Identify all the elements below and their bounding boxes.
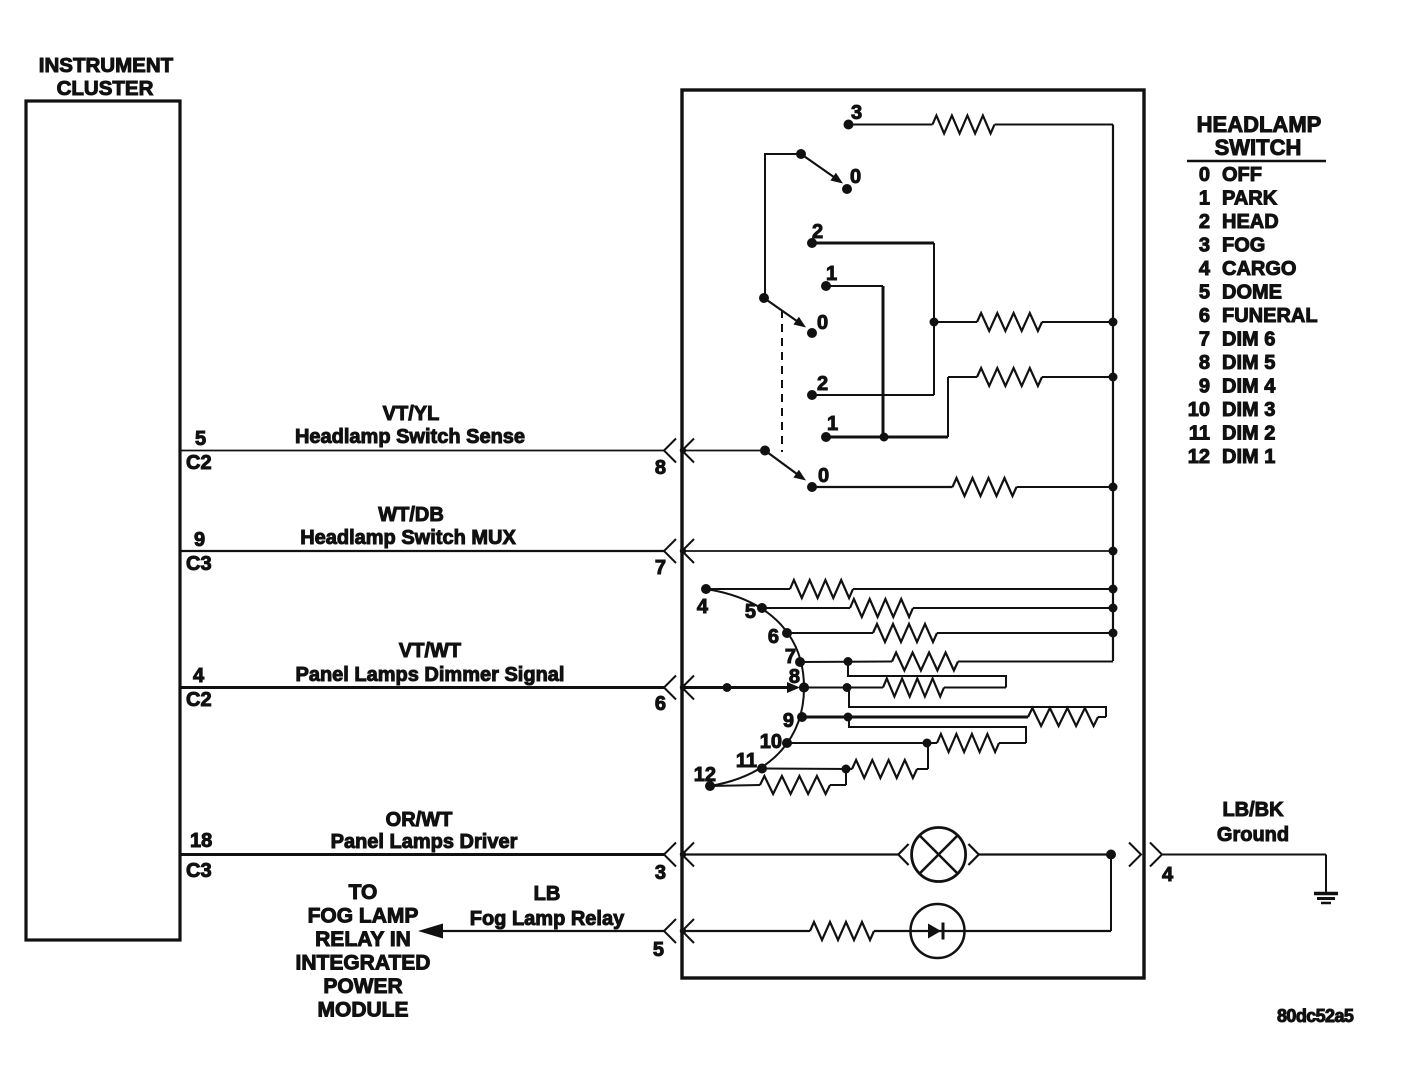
svg-text:HEADLAMP: HEADLAMP (1197, 112, 1322, 137)
svg-text:Panel Lamps Driver: Panel Lamps Driver (331, 831, 518, 853)
svg-text:7: 7 (655, 557, 666, 579)
svg-text:HEAD: HEAD (1222, 211, 1279, 233)
svg-text:SWITCH: SWITCH (1215, 135, 1302, 160)
svg-text:VT/WT: VT/WT (399, 640, 461, 662)
svg-text:0: 0 (1199, 164, 1210, 186)
svg-text:DOME: DOME (1222, 282, 1282, 304)
svg-text:Headlamp Switch Sense: Headlamp Switch Sense (295, 426, 525, 448)
svg-text:18: 18 (190, 830, 212, 852)
svg-text:12: 12 (1188, 446, 1210, 468)
svg-text:C2: C2 (186, 452, 212, 474)
svg-text:LB/BK: LB/BK (1222, 799, 1284, 821)
svg-text:6: 6 (1199, 305, 1210, 327)
svg-text:Headlamp Switch MUX: Headlamp Switch MUX (300, 527, 516, 549)
svg-text:INSTRUMENT: INSTRUMENT (39, 54, 174, 77)
svg-text:WT/DB: WT/DB (378, 504, 444, 526)
svg-text:2: 2 (817, 373, 828, 395)
svg-text:Ground: Ground (1217, 824, 1289, 846)
svg-text:FOG LAMP: FOG LAMP (308, 905, 419, 928)
svg-text:INTEGRATED: INTEGRATED (296, 952, 431, 975)
svg-text:Panel Lamps Dimmer Signal: Panel Lamps Dimmer Signal (296, 664, 565, 686)
svg-text:8: 8 (789, 666, 800, 688)
svg-text:9: 9 (783, 710, 794, 732)
svg-text:CLUSTER: CLUSTER (57, 77, 154, 100)
svg-text:5: 5 (1199, 282, 1210, 304)
svg-text:POWER: POWER (323, 975, 402, 998)
svg-text:2: 2 (1199, 211, 1210, 233)
svg-text:DIM 3: DIM 3 (1222, 399, 1275, 421)
svg-text:DIM 4: DIM 4 (1222, 376, 1276, 398)
svg-text:4: 4 (697, 596, 709, 618)
svg-text:5: 5 (195, 428, 206, 450)
svg-text:3: 3 (655, 862, 666, 884)
svg-text:8: 8 (1199, 352, 1210, 374)
svg-text:9: 9 (1199, 376, 1210, 398)
svg-text:9: 9 (194, 529, 205, 551)
svg-text:LB: LB (534, 883, 561, 905)
svg-text:4: 4 (1199, 258, 1211, 280)
svg-text:6: 6 (768, 626, 779, 648)
svg-text:7: 7 (1199, 329, 1210, 351)
svg-text:MODULE: MODULE (318, 999, 409, 1022)
svg-text:4: 4 (193, 665, 205, 687)
svg-text:FUNERAL: FUNERAL (1222, 305, 1318, 327)
svg-text:OFF: OFF (1222, 164, 1262, 186)
svg-text:DIM 5: DIM 5 (1222, 352, 1275, 374)
svg-text:1: 1 (827, 413, 838, 435)
svg-text:11: 11 (1189, 423, 1210, 445)
svg-text:PARK: PARK (1222, 188, 1278, 210)
svg-text:5: 5 (745, 601, 756, 623)
svg-text:DIM 2: DIM 2 (1222, 423, 1275, 445)
svg-text:3: 3 (1199, 235, 1210, 257)
svg-text:0: 0 (850, 166, 861, 188)
svg-text:12: 12 (694, 764, 716, 786)
svg-text:5: 5 (653, 939, 664, 961)
svg-text:8: 8 (655, 457, 666, 479)
svg-text:11: 11 (736, 750, 757, 772)
svg-text:C2: C2 (186, 689, 212, 711)
svg-text:7: 7 (785, 646, 796, 668)
svg-text:10: 10 (1188, 399, 1210, 421)
svg-text:FOG: FOG (1222, 235, 1265, 257)
svg-text:3: 3 (851, 102, 862, 124)
svg-text:4: 4 (1162, 864, 1174, 886)
svg-text:TO: TO (349, 881, 378, 904)
svg-text:CARGO: CARGO (1222, 258, 1296, 280)
svg-text:0: 0 (818, 465, 829, 487)
svg-text:DIM 1: DIM 1 (1222, 446, 1275, 468)
svg-text:DIM 6: DIM 6 (1222, 329, 1275, 351)
svg-text:Fog Lamp Relay: Fog Lamp Relay (470, 908, 625, 930)
svg-text:10: 10 (760, 731, 782, 753)
svg-text:VT/YL: VT/YL (383, 403, 440, 425)
svg-text:RELAY IN: RELAY IN (315, 928, 411, 951)
svg-text:0: 0 (817, 312, 828, 334)
svg-text:1: 1 (1199, 188, 1210, 210)
svg-text:6: 6 (655, 693, 666, 715)
svg-text:80dc52a5: 80dc52a5 (1277, 1006, 1354, 1026)
svg-text:OR/WT: OR/WT (386, 809, 453, 831)
svg-text:C3: C3 (186, 860, 212, 882)
svg-text:C3: C3 (186, 553, 212, 575)
